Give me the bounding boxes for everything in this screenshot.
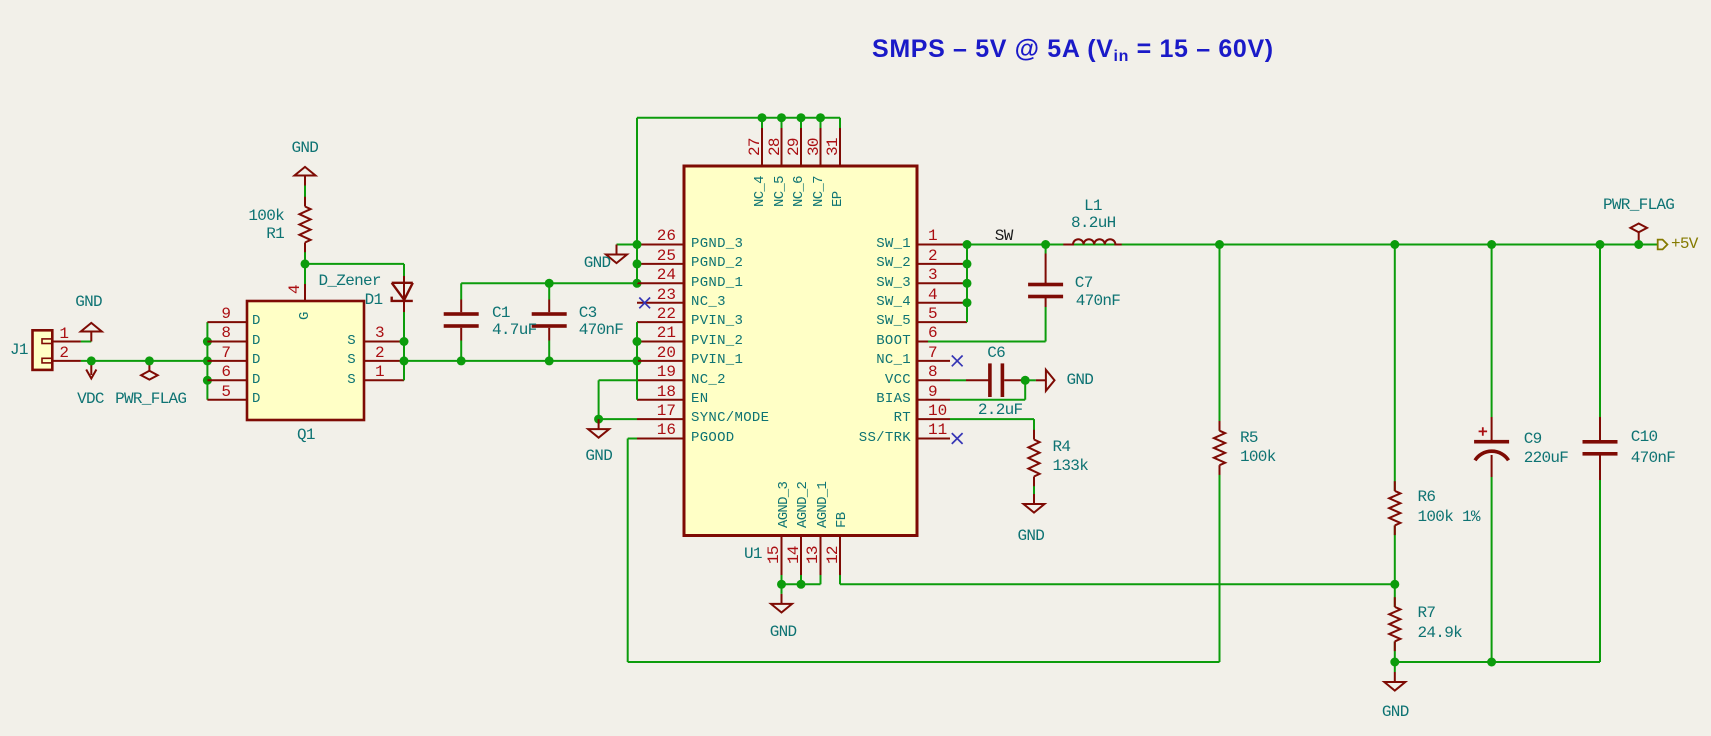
label GND C6	[1067, 372, 1094, 388]
node PGND junctions	[633, 240, 642, 268]
label R6	[1418, 489, 1436, 505]
label C1	[492, 305, 510, 321]
pin number 20	[476, 345, 676, 361]
pin number J1.1	[0, 326, 69, 342]
pin number 8	[928, 364, 938, 380]
resistor R4	[1028, 430, 1039, 494]
label PWR_FLAG input	[115, 391, 186, 407]
label U1	[744, 546, 762, 562]
pin name D	[252, 334, 261, 348]
label Q1	[297, 427, 315, 443]
value R7	[1418, 625, 1463, 641]
pin number 7	[928, 345, 938, 361]
value R1	[84, 208, 284, 224]
pin name D	[252, 353, 261, 367]
label GND AGND	[770, 624, 797, 640]
pin number 18	[476, 384, 676, 400]
wire output ground rail	[1395, 661, 1600, 663]
power flag PWR_FLAG output	[1630, 224, 1647, 245]
wire SW bus	[966, 245, 968, 323]
pin name VCC	[711, 373, 911, 387]
no-connect NC_3	[639, 298, 650, 309]
pin number Q1.2	[375, 345, 385, 361]
node C7 junction	[1041, 240, 1050, 249]
ground at VCC C6	[1030, 370, 1055, 391]
capacitor C3	[532, 283, 567, 361]
label C6	[987, 345, 1005, 361]
transistor Q1	[207, 284, 404, 420]
label C10	[1631, 429, 1658, 445]
value D1	[319, 273, 381, 289]
resistor R7	[1389, 584, 1400, 662]
pin name AGND_1	[816, 482, 830, 528]
pin name S	[156, 334, 356, 348]
connector J1	[33, 330, 81, 370]
hierarchical label +5V	[1658, 240, 1668, 250]
node PVIN junctions	[633, 337, 642, 346]
resistor R5	[1214, 245, 1225, 475]
label +5V	[1671, 236, 1698, 252]
node cap junctions	[457, 279, 642, 366]
wire FB	[840, 575, 1395, 584]
capacitor C1	[444, 283, 479, 361]
no-connect NC_1	[952, 356, 963, 367]
pin name NC_4	[753, 176, 767, 207]
capacitor C6	[950, 363, 1030, 397]
pin name SW_1	[711, 237, 911, 251]
ground at R1 top	[295, 167, 316, 186]
label GND R4	[1018, 528, 1045, 544]
node SW junctions	[963, 240, 972, 307]
no-connect SS/TRK	[952, 433, 963, 444]
node ground rail junctions	[1390, 658, 1496, 667]
wire VDC input	[81, 360, 207, 362]
node Q1 drain junctions	[203, 337, 212, 385]
label C3	[579, 305, 597, 321]
node top rail junctions	[758, 113, 826, 122]
pin number 13	[805, 546, 821, 564]
pin number 26	[476, 228, 676, 244]
node D1-S junctions	[400, 337, 409, 365]
pin name PGND_1	[691, 276, 743, 290]
value R4	[1053, 458, 1089, 474]
pin number 23	[476, 287, 676, 303]
wire AGND	[782, 575, 821, 594]
pin number 30	[806, 138, 822, 156]
pin number Q1.5	[31, 384, 231, 400]
pin name NC_5	[773, 176, 787, 207]
power symbol VDC	[86, 361, 96, 379]
label GND J1	[75, 294, 102, 310]
value C10	[1631, 450, 1676, 466]
ground at J1 pin1	[81, 323, 102, 342]
node C10 junction	[1596, 240, 1605, 249]
pin name NC_1	[711, 353, 911, 367]
label D1	[365, 292, 383, 308]
value R5	[1240, 449, 1276, 465]
label GND R1	[292, 140, 319, 156]
value C7	[1076, 293, 1121, 309]
wire SW to +5V rail	[967, 244, 1658, 246]
pin number 11	[928, 422, 947, 438]
pin number 9	[928, 384, 938, 400]
resistor R6	[1389, 245, 1400, 585]
label GND PGND	[584, 255, 611, 271]
wire PVIN bus	[636, 322, 638, 400]
node VDC junctions	[87, 356, 154, 365]
pin name SW_5	[711, 314, 911, 328]
pin name SYNC/MODE	[691, 411, 769, 425]
ground at AGND	[771, 594, 792, 613]
value R6	[1418, 509, 1480, 525]
label R5	[1240, 430, 1258, 446]
pin name NC_7	[812, 176, 826, 207]
pin name PGOOD	[691, 431, 735, 445]
wire BIAS	[950, 380, 1025, 399]
label C7	[1075, 275, 1093, 291]
capacitor C10	[1583, 245, 1618, 663]
label VDC	[77, 391, 104, 407]
pin number 17	[476, 403, 676, 419]
pin number 24	[476, 267, 676, 283]
node C9 junction	[1487, 240, 1496, 249]
label J1	[10, 342, 28, 358]
pin name D	[252, 314, 261, 328]
node C6 junction	[1021, 376, 1030, 385]
pin number Q1.3	[375, 325, 385, 341]
pin number 16	[476, 422, 676, 438]
pin number 31	[825, 138, 841, 156]
pin name NC_2	[691, 373, 726, 387]
pin number 29	[786, 138, 802, 156]
ground at output	[1384, 662, 1405, 691]
pin number 22	[476, 306, 676, 322]
capacitor C9	[1474, 245, 1509, 663]
pin name PGND_2	[691, 256, 743, 270]
node R5 top junction	[1215, 240, 1224, 249]
pin number 21	[476, 325, 676, 341]
pin number 12	[825, 546, 841, 564]
pin number Q1.7	[31, 345, 231, 361]
pin number Q1.1	[375, 364, 385, 380]
pin number 19	[476, 364, 676, 380]
pin name AGND_3	[777, 482, 791, 528]
power flag PWR_FLAG input	[141, 361, 158, 380]
pin name BIAS	[711, 392, 911, 406]
label PWR_FLAG output	[1603, 197, 1674, 213]
value C6	[978, 402, 1023, 418]
pin name BOOT	[711, 334, 911, 348]
node R6 junctions	[1390, 240, 1399, 589]
pin name G	[298, 312, 312, 320]
inductor L1	[1063, 239, 1121, 244]
pin number Q1.9	[31, 306, 231, 322]
pin number 27	[747, 138, 763, 156]
title text	[872, 35, 1274, 66]
wire PGOOD to R5	[628, 439, 1220, 663]
pin name SW_2	[711, 256, 911, 270]
value C1	[492, 322, 537, 338]
net label SW	[995, 228, 1013, 244]
pin number 14	[786, 546, 802, 564]
pin name D	[252, 373, 261, 387]
wire Q1 drain bus	[206, 322, 208, 400]
pin name SS/TRK	[711, 431, 911, 445]
capacitor C7	[928, 245, 1063, 342]
wire EP top rail	[637, 118, 840, 284]
resistor R1	[299, 186, 310, 264]
node gate junction	[301, 259, 310, 268]
pin name NC_6	[792, 176, 806, 207]
pin number J1.2	[0, 345, 69, 361]
pin name PVIN_1	[691, 353, 743, 367]
pin name AGND_2	[796, 482, 810, 528]
value L1	[1071, 215, 1116, 231]
label R1	[84, 226, 284, 242]
pin name NC_3	[691, 295, 726, 309]
label GND output	[1382, 704, 1409, 720]
zener diode D1	[392, 264, 413, 361]
pin name D	[252, 392, 261, 406]
pin name PVIN_2	[691, 334, 743, 348]
pin number 3	[928, 267, 938, 283]
pin number 4	[928, 287, 938, 303]
value C3	[579, 322, 624, 338]
ground at PGND	[606, 245, 637, 264]
label R7	[1418, 605, 1436, 621]
pin name PGND_3	[691, 237, 743, 251]
pin name FB	[835, 513, 849, 528]
pin name EN	[691, 392, 708, 406]
pin number 28	[767, 138, 783, 156]
pin name S	[156, 373, 356, 387]
wire J1.1-GND	[81, 341, 91, 343]
pin name PVIN_3	[691, 314, 743, 328]
op-amp U1 body	[637, 128, 967, 575]
ground at SYNC/MODE	[588, 419, 609, 438]
pin name SW_4	[711, 295, 911, 309]
label L1	[1084, 198, 1102, 214]
pin name SW_3	[711, 276, 911, 290]
label R4	[1053, 439, 1071, 455]
wire VIN rail	[404, 360, 637, 362]
pin name RT	[711, 411, 911, 425]
pin number 15	[766, 546, 782, 564]
node AGND junctions	[777, 580, 806, 589]
pin number 6	[928, 325, 938, 341]
label C9	[1524, 431, 1542, 447]
value C9	[1524, 450, 1569, 466]
pin number Q1.8	[31, 325, 231, 341]
ground at R4	[1024, 494, 1045, 513]
pin number 25	[476, 248, 676, 264]
pin number 5	[928, 306, 938, 322]
label GND SYNC	[585, 448, 612, 464]
node SYNC junction	[594, 415, 603, 424]
wire Q1 source to pin1	[403, 361, 405, 380]
pin name EP	[831, 192, 845, 207]
pin number Q1.6	[31, 364, 231, 380]
pin number 10	[928, 403, 947, 419]
wire RT to R4	[950, 419, 1034, 439]
wire gate node	[305, 264, 404, 284]
wire NC_2 SYNC to GND	[599, 380, 637, 419]
pin name S	[156, 353, 356, 367]
pin number 1	[928, 228, 938, 244]
pin number Q1.4	[287, 285, 303, 294]
wire cap tops to PGND_1	[461, 282, 637, 284]
pin number 2	[928, 248, 938, 264]
